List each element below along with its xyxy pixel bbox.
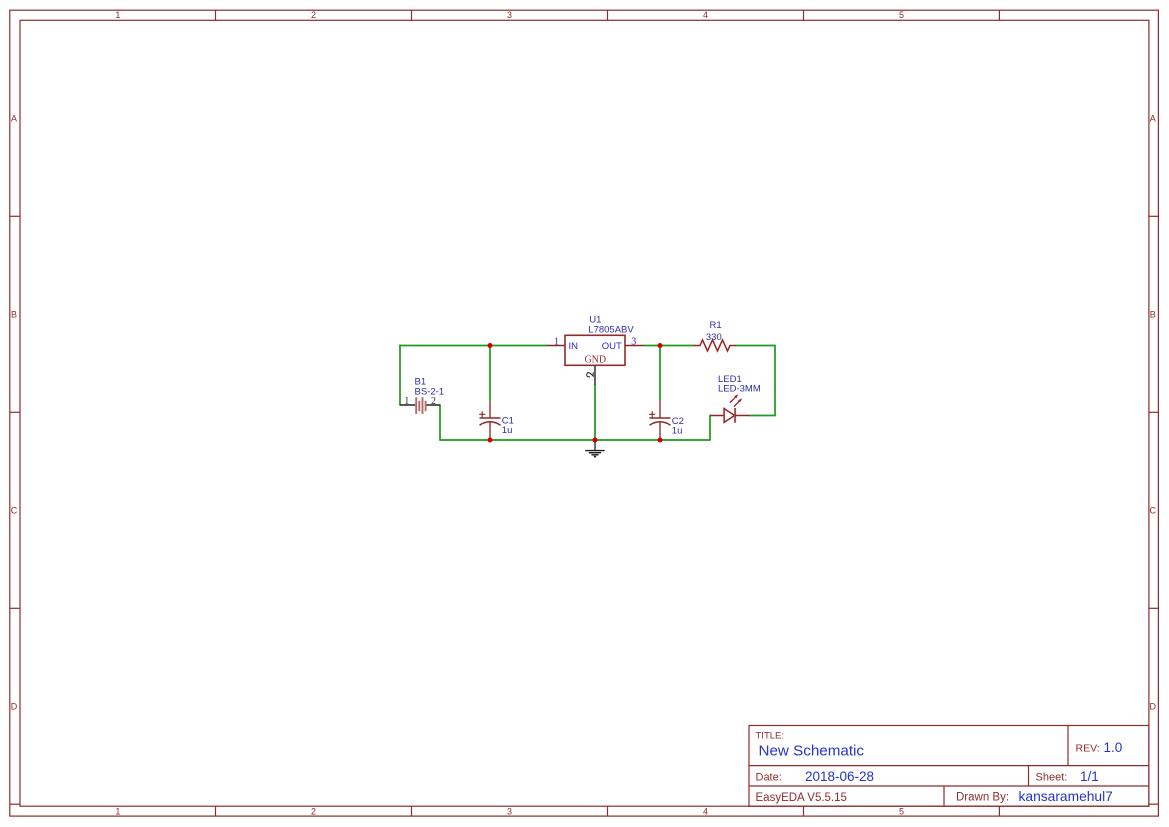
svg-text:A: A	[1150, 113, 1156, 123]
battery B1 pin 2 lead	[427, 404, 441, 406]
title block	[749, 726, 1149, 807]
junction at ground	[593, 438, 598, 443]
wire ground rail bottom	[440, 439, 711, 441]
svg-text:3: 3	[507, 10, 512, 20]
ground bar 2	[589, 452, 601, 454]
svg-text:kansaramehul7: kansaramehul7	[1019, 789, 1113, 804]
ground	[585, 441, 604, 457]
junction at C2 bottom	[658, 438, 663, 443]
svg-text:D: D	[1150, 701, 1157, 711]
svg-text:3: 3	[507, 807, 512, 817]
svg-text:D: D	[11, 701, 18, 711]
LED1 triangle	[724, 409, 735, 423]
wire net VIN left vertical	[399, 345, 401, 405]
svg-text:GND: GND	[584, 354, 606, 365]
svg-text:3: 3	[631, 337, 636, 348]
wire C1 top branch	[489, 346, 491, 402]
capacitor C1 bottom lead	[489, 422, 491, 441]
wire C2 top branch	[659, 346, 661, 401]
capacitor C1 top plate	[480, 417, 501, 419]
U1 pin number 2	[587, 373, 594, 377]
svg-text:EasyEDA V5.5.15: EasyEDA V5.5.15	[756, 792, 847, 804]
battery B1 plates	[415, 397, 417, 414]
U1 body	[565, 335, 625, 365]
svg-text:REV:: REV:	[1076, 743, 1100, 755]
svg-text:2: 2	[311, 10, 316, 20]
wire LED1 cathode to right vertical	[749, 415, 776, 417]
svg-text:1.0: 1.0	[1104, 740, 1123, 755]
svg-text:330: 330	[706, 332, 722, 343]
svg-text:1: 1	[404, 396, 409, 407]
battery B1	[400, 377, 445, 415]
regulator U1	[548, 315, 644, 386]
capacitor C1 top lead	[489, 401, 491, 418]
ground bar 1	[585, 450, 604, 452]
svg-text:C: C	[1150, 505, 1157, 515]
capacitor C2 bottom lead	[659, 422, 661, 441]
svg-text:LED-3MM: LED-3MM	[718, 383, 761, 394]
battery B1 pin 1 lead	[400, 404, 416, 406]
wire LED1 anode drop	[710, 415, 712, 417]
ground bar 3	[591, 454, 598, 456]
svg-text:R1: R1	[710, 320, 722, 331]
svg-text:A: A	[11, 113, 17, 123]
svg-text:OUT: OUT	[602, 341, 622, 352]
U1 pin 2 lead	[594, 365, 596, 385]
svg-text:Date:: Date:	[756, 771, 782, 783]
LED1 cathode bar	[734, 408, 736, 423]
U1 pin 1 lead	[548, 345, 566, 347]
capacitor C1	[479, 401, 514, 440]
svg-text:Sheet:: Sheet:	[1036, 771, 1068, 783]
svg-text:1/1: 1/1	[1080, 769, 1099, 784]
svg-text:L7805ABV: L7805ABV	[588, 324, 634, 335]
wire net VIN top horizontal	[399, 345, 548, 347]
wire R1 to right corner	[736, 345, 776, 347]
wire U1 GND drop	[594, 384, 596, 440]
LED1 light arrow 2	[734, 401, 739, 406]
LED1 light arrow 1	[730, 397, 735, 402]
U1 pin 3 lead	[625, 345, 644, 347]
svg-text:New Schematic: New Schematic	[759, 742, 865, 759]
svg-text:B: B	[1150, 309, 1156, 319]
junction at C1 top	[488, 343, 493, 348]
LED1 anode lead	[711, 415, 725, 417]
svg-text:4: 4	[703, 10, 708, 20]
svg-text:B: B	[11, 309, 17, 319]
svg-text:1u: 1u	[502, 425, 513, 436]
junction at C2 top	[658, 343, 663, 348]
capacitor C2 top lead	[659, 400, 661, 418]
resistor R1 body zigzag	[694, 340, 736, 351]
svg-text:C: C	[11, 505, 18, 515]
svg-text:IN: IN	[569, 341, 579, 352]
junction at C1 bottom	[488, 438, 493, 443]
svg-text:4: 4	[703, 807, 708, 817]
capacitor C2 plus sign	[649, 413, 655, 415]
svg-text:2: 2	[311, 807, 316, 817]
svg-text:5: 5	[899, 10, 904, 20]
svg-text:1: 1	[554, 337, 559, 348]
resistor R1	[694, 320, 736, 351]
ground stem	[594, 441, 596, 451]
svg-text:BS-2-1: BS-2-1	[415, 387, 445, 398]
svg-text:TITLE:: TITLE:	[756, 731, 785, 742]
svg-text:Drawn By:: Drawn By:	[956, 792, 1009, 804]
capacitor C1 plus sign	[479, 413, 485, 415]
LED1 cathode lead	[735, 415, 750, 417]
svg-text:1u: 1u	[672, 426, 683, 437]
svg-text:1: 1	[115, 807, 120, 817]
wire U1 OUT to R1	[644, 345, 695, 347]
capacitor C2 top plate	[650, 417, 671, 419]
capacitor C1 bottom plate arc	[480, 422, 501, 425]
capacitor C2	[649, 400, 684, 440]
LED LED1	[711, 374, 761, 423]
wire right vertical	[774, 345, 776, 416]
capacitor C2 bottom plate arc	[650, 422, 671, 425]
svg-text:5: 5	[899, 807, 904, 817]
svg-text:2018-06-28: 2018-06-28	[805, 769, 874, 784]
wire battery B1 pin2 drop	[439, 405, 441, 441]
svg-text:1: 1	[115, 10, 120, 20]
ground bar 4	[594, 456, 596, 458]
